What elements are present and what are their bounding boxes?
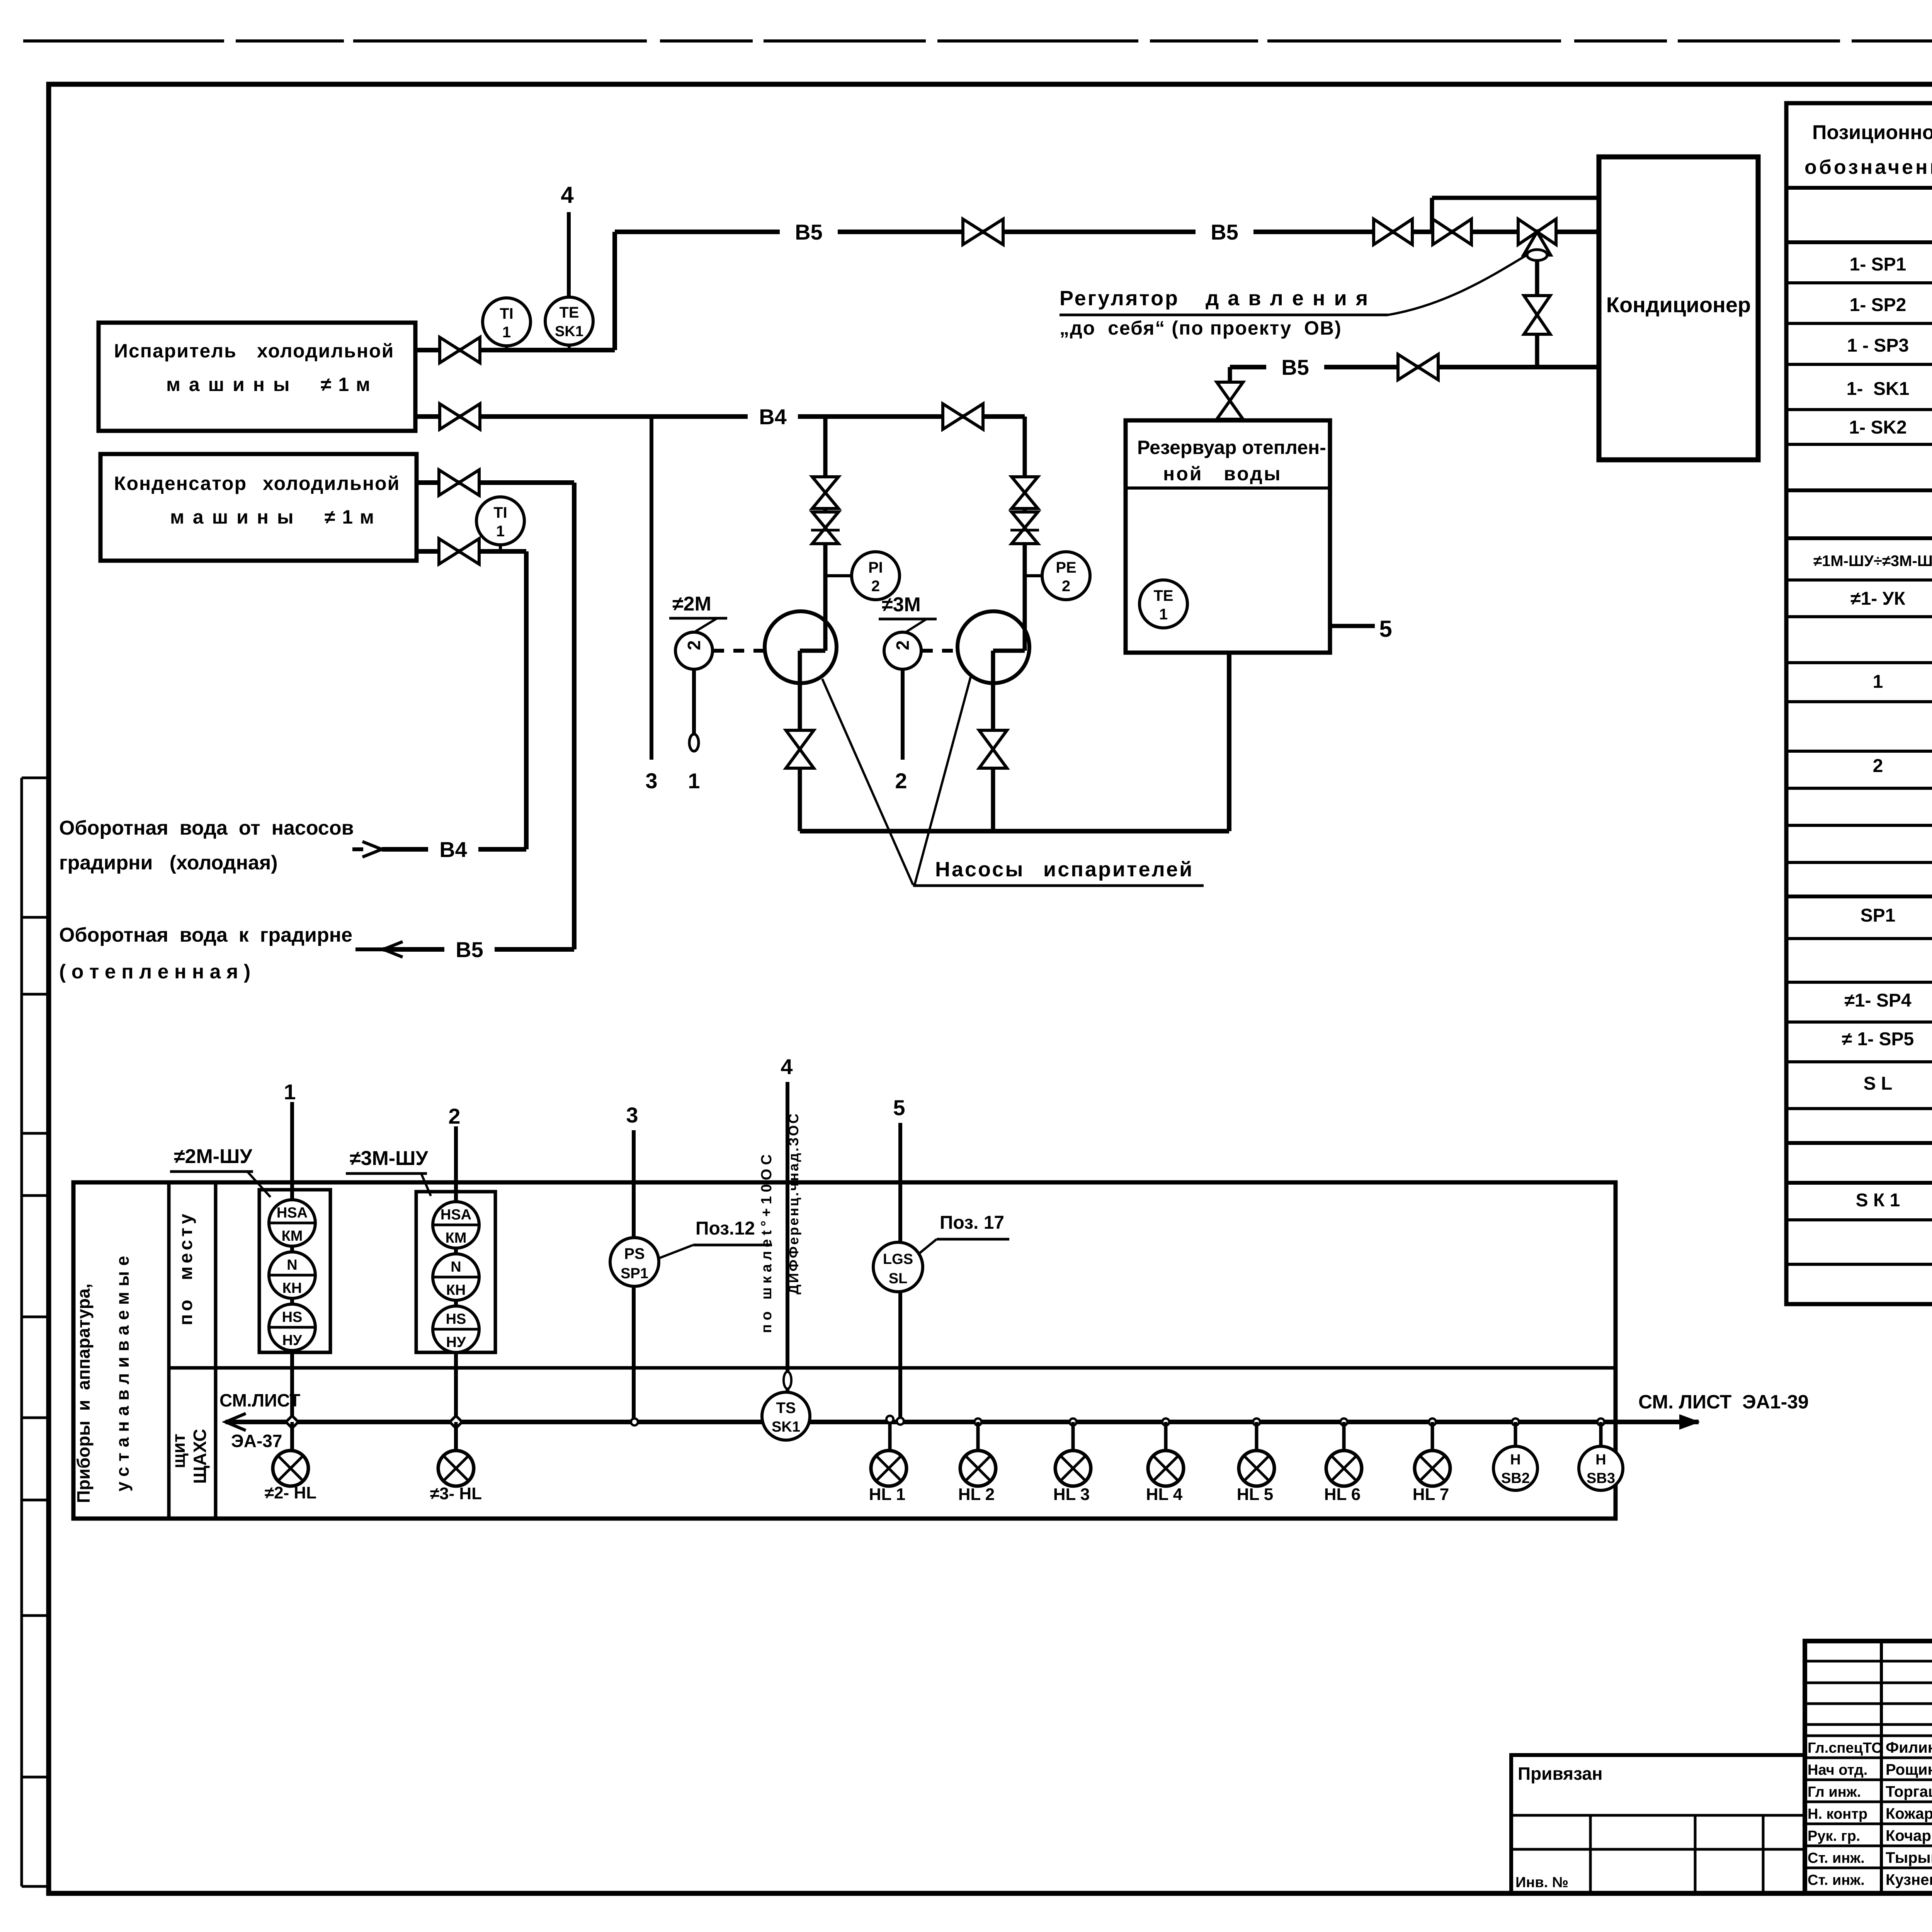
title block outer	[1805, 1641, 1932, 1893]
arrow to sheet ЭА1-39	[1679, 1414, 1700, 1430]
instrument PE 2	[1042, 552, 1090, 600]
panel divider 1	[167, 1182, 171, 1519]
svg-text:Н: Н	[1510, 1452, 1520, 1468]
wire: B5 warmed water line tank-conditioner	[1230, 365, 1599, 369]
wire: line 5 to LGS SL	[898, 1123, 902, 1422]
junction on bus (HL 6)	[1340, 1418, 1347, 1425]
svg-text:Оборотная вода к градирне: Оборотная вода к градирне	[59, 924, 352, 946]
svg-text:Позиционное: Позиционное	[1812, 121, 1932, 144]
svg-text:м а ш и н ы: м а ш и н ы	[166, 374, 291, 395]
svg-text:SK1: SK1	[555, 323, 583, 340]
svg-text:Насосы: Насосы	[935, 858, 1024, 881]
svg-text:испарителей: испарителей	[1043, 858, 1194, 881]
valve 1 of pair on B5 supply	[1374, 219, 1393, 245]
svg-text:Регулятор: Регулятор	[1060, 287, 1179, 310]
wire: pump2 internal jog	[993, 649, 1025, 653]
svg-text:НУ: НУ	[282, 1332, 302, 1349]
valve on B4 line	[943, 404, 963, 429]
instrument LGS SL	[873, 1242, 923, 1292]
svg-text:В5: В5	[456, 937, 483, 962]
valve on evaporator bottom line	[440, 404, 460, 429]
svg-text:HSA: HSA	[440, 1207, 471, 1223]
wire: pump 2 suction riser	[1023, 417, 1027, 651]
svg-text:холодильной: холодильной	[257, 340, 394, 362]
local stack 1 frame	[259, 1190, 330, 1352]
junction on bus (LGS)	[897, 1418, 904, 1425]
conditioner box: Кондиционер	[1599, 157, 1758, 460]
svg-text:Ст. инж.: Ст. инж.	[1808, 1872, 1865, 1888]
instrument TS SK1 on bus	[762, 1392, 810, 1440]
svg-text:≠2М: ≠2М	[672, 593, 711, 615]
svg-text:≠1- УК: ≠1- УК	[1850, 588, 1905, 609]
svg-text:по шкалеt°+10ОС: по шкалеt°+10ОС	[759, 1150, 775, 1333]
junction on bus (HL1)	[886, 1416, 893, 1423]
junction on bus (line1)	[286, 1416, 298, 1428]
svg-text:4: 4	[561, 182, 574, 208]
svg-text:HS: HS	[282, 1309, 303, 1325]
arrow to sheet ЭА-37	[226, 1413, 246, 1430]
svg-text:Поз. 17: Поз. 17	[940, 1213, 1004, 1233]
svg-text:≠2М-ШУ: ≠2М-ШУ	[174, 1145, 252, 1168]
svg-text:Рощин: Рощин	[1886, 1761, 1932, 1778]
valve on B5 supply	[963, 219, 983, 245]
svg-text:Оборотная вода от насосов: Оборотная вода от насосов	[59, 817, 354, 839]
svg-text:Конденсатор: Конденсатор	[114, 473, 247, 494]
valve on regulator drop	[1524, 296, 1550, 315]
bulb above TS SK1	[784, 1372, 791, 1389]
junction on bus (PS)	[631, 1418, 638, 1425]
gauge N2M circle	[675, 632, 713, 669]
svg-text:N: N	[287, 1257, 297, 1273]
svg-text:PE: PE	[1056, 559, 1076, 576]
svg-text:2: 2	[448, 1104, 460, 1128]
lamp HL 1	[871, 1451, 906, 1486]
svg-text:HL 7: HL 7	[1413, 1485, 1449, 1504]
condenser box: Конденсатор холодильной машины N1M	[100, 454, 417, 561]
instrument TE SK1	[545, 297, 593, 345]
svg-text:ной воды: ной воды	[1163, 463, 1282, 485]
panel table outer	[73, 1182, 1616, 1519]
wire: HL 6 stem	[1342, 1422, 1346, 1451]
svg-text:1: 1	[688, 769, 700, 793]
wire: HL 7 stem	[1431, 1422, 1434, 1451]
junction on bus (HL 2)	[975, 1418, 981, 1425]
svg-text:1: 1	[1159, 606, 1168, 623]
attachment box (Привязан)	[1511, 1755, 1805, 1893]
junction on bus (SB3)	[1597, 1418, 1604, 1425]
instrument N/КН (stack2)	[433, 1254, 479, 1300]
svg-text:4: 4	[781, 1054, 793, 1079]
svg-text:SP1: SP1	[1861, 905, 1896, 926]
svg-text:холодильной: холодильной	[263, 473, 400, 494]
wire: line 2 to local stack	[454, 1126, 458, 1451]
svg-text:КН: КН	[282, 1280, 302, 1296]
svg-text:Ст. инж.: Ст. инж.	[1808, 1850, 1865, 1866]
svg-text:градирни (холодная): градирни (холодная)	[59, 852, 278, 874]
instrument TI 1 (condenser)	[476, 497, 524, 545]
wire: line 4 riser	[567, 212, 571, 297]
svg-text:ЭА-37: ЭА-37	[231, 1431, 282, 1451]
svg-text:Торгашов: Торгашов	[1886, 1783, 1932, 1800]
wire: line 1 to local stack	[290, 1102, 294, 1451]
svg-text:устанавливаемые: устанавливаемые	[112, 1250, 133, 1492]
wire: bypass riser	[1430, 198, 1434, 232]
svg-text:HL 2: HL 2	[958, 1485, 995, 1504]
wire: tank outlet 5	[1330, 624, 1375, 628]
wire: line 1 impulse	[692, 669, 696, 733]
wire: panel bus ЩАХС	[226, 1420, 1699, 1424]
svg-text:≠3М: ≠3М	[882, 594, 921, 616]
valve on condenser bottom line	[439, 539, 459, 564]
title block small rows (upper empty)	[1805, 1660, 1932, 1663]
svg-text:1: 1	[496, 523, 505, 540]
svg-text:≠ 1 м: ≠ 1 м	[325, 506, 375, 528]
valve on pump2 riser	[1012, 477, 1038, 493]
wire: riser condenser-B5 return	[572, 483, 577, 949]
check valve on pump2 riser	[1012, 512, 1038, 528]
svg-text:HS: HS	[446, 1311, 466, 1327]
svg-text:HL 4: HL 4	[1146, 1485, 1183, 1504]
valve above tank	[1217, 382, 1243, 401]
wire: evaporator top outlet	[415, 348, 615, 352]
svg-text:1: 1	[284, 1080, 296, 1104]
valve on pump1 riser	[812, 477, 838, 493]
svg-text:TE: TE	[559, 304, 579, 321]
wire: line 3 drop	[650, 417, 653, 760]
wire: PE tap	[1025, 574, 1043, 577]
svg-text:3: 3	[626, 1103, 638, 1127]
svg-text:В5: В5	[795, 220, 823, 244]
svg-text:Кожаринова: Кожаринова	[1886, 1805, 1932, 1822]
instrument HS/НУ (stack1)	[269, 1304, 315, 1350]
wire: pump1 discharge	[798, 651, 802, 831]
svg-text:SP1: SP1	[621, 1265, 648, 1282]
svg-text:TE: TE	[1153, 587, 1173, 604]
wire: SB3 stem	[1599, 1422, 1603, 1447]
instrument TE 1 (tank)	[1139, 580, 1187, 628]
wire: TE stem	[568, 345, 571, 350]
wire: tank top riser	[1228, 367, 1232, 382]
svg-text:Н: Н	[1595, 1452, 1606, 1468]
junction on bus (line2)	[450, 1416, 462, 1428]
svg-text:S К 1: S К 1	[1856, 1190, 1900, 1211]
wire: pump1 internal jog	[800, 649, 825, 653]
title block column	[1880, 1641, 1883, 1893]
wire: HL 4 stem	[1164, 1422, 1168, 1451]
svg-text:Рук. гр.: Рук. гр.	[1808, 1828, 1860, 1844]
svg-text:Нач отд.: Нач отд.	[1808, 1762, 1867, 1778]
panel row divider	[169, 1366, 1616, 1370]
svg-text:2: 2	[1873, 756, 1883, 776]
svg-text:HL 3: HL 3	[1053, 1485, 1090, 1504]
svg-text:1- SP2: 1- SP2	[1850, 295, 1906, 315]
lamp N3-HL	[438, 1451, 474, 1486]
svg-text:Кузнецова: Кузнецова	[1886, 1871, 1932, 1888]
lamp HL 7	[1415, 1451, 1450, 1486]
panel divider 2	[214, 1182, 218, 1519]
svg-text:КМ: КМ	[446, 1230, 467, 1246]
svg-text:Гл инж.: Гл инж.	[1808, 1784, 1861, 1800]
valve on condenser top line	[439, 470, 459, 495]
svg-text:LGS: LGS	[883, 1251, 913, 1267]
valve 2 of pair on B5 supply	[1433, 219, 1452, 245]
svg-text:В5: В5	[1211, 220, 1238, 244]
arrow out of B5 return	[383, 942, 403, 957]
svg-text:Резервуар отеплен-: Резервуар отеплен-	[1137, 437, 1326, 458]
svg-text:( о т е п л е н н а я ): ( о т е п л е н н а я )	[59, 961, 250, 983]
svg-text:В4: В4	[439, 837, 467, 862]
capillary bulb on line 1	[689, 734, 699, 751]
svg-text:≠ 1 м: ≠ 1 м	[321, 374, 371, 395]
wire: TI stem	[505, 346, 508, 350]
table row lines	[1786, 186, 1932, 190]
wire: dashed link N3M-pump2	[922, 649, 957, 653]
wire: riser to B5 supply	[612, 232, 617, 350]
svg-text:Кондиционер: Кондиционер	[1606, 293, 1751, 317]
svg-text:1- SK2: 1- SK2	[1849, 417, 1906, 438]
svg-text:HL 5: HL 5	[1237, 1485, 1274, 1504]
warmed water tank: Резервуар отепленной воды	[1126, 420, 1330, 653]
instrument PI 2	[852, 552, 900, 600]
svg-text:щит: щит	[168, 1434, 189, 1468]
wire: N3-HL stem	[454, 1422, 458, 1451]
svg-text:СМ.ЛИСТ: СМ.ЛИСТ	[219, 1390, 300, 1410]
svg-text:SB3: SB3	[1587, 1470, 1615, 1486]
specification table outer	[1786, 103, 1932, 1304]
button H SB3	[1579, 1446, 1623, 1490]
valve on evaporator top outlet	[440, 337, 460, 363]
button H SB2	[1493, 1446, 1537, 1490]
svg-text:ЩАХС: ЩАХС	[190, 1429, 210, 1484]
svg-text:Испаритель: Испаритель	[114, 340, 237, 362]
svg-text:TI: TI	[500, 305, 514, 322]
svg-text:PI: PI	[868, 559, 883, 576]
wire: SB2 stem	[1514, 1422, 1517, 1447]
svg-text:PS: PS	[624, 1245, 645, 1262]
svg-text:НУ: НУ	[446, 1334, 466, 1350]
svg-text:HSA: HSA	[277, 1205, 308, 1221]
instrument HSA/КМ (stack1)	[269, 1200, 315, 1246]
wire: B4 return line	[382, 847, 526, 852]
evaporator box: Испаритель холодильной машины N1M	[99, 323, 415, 431]
pump N3M (Насос испарителя 2)	[957, 611, 1029, 683]
valve on pump2 discharge	[979, 730, 1007, 749]
wire: pump2 discharge	[991, 651, 995, 831]
svg-text:м а ш и н ы: м а ш и н ы	[170, 506, 295, 528]
svg-text:TS: TS	[776, 1400, 796, 1417]
lamp N2-HL	[273, 1451, 308, 1486]
wire: HL1 stem	[888, 1422, 892, 1451]
lamp HL 4	[1148, 1451, 1184, 1486]
svg-text:В5: В5	[1281, 355, 1309, 379]
wire: pump suction manifold	[800, 829, 1229, 833]
svg-text:СМ. ЛИСТ ЭА1-39: СМ. ЛИСТ ЭА1-39	[1638, 1391, 1809, 1413]
svg-text:≠1М-ШУ÷≠3М-ШУ: ≠1М-ШУ÷≠3М-ШУ	[1813, 553, 1932, 570]
junction on bus (HL 7)	[1429, 1418, 1436, 1425]
svg-text:5: 5	[1379, 616, 1392, 642]
wire: line 2 impulse	[901, 669, 905, 760]
svg-text:≠1- SP4: ≠1- SP4	[1844, 990, 1911, 1011]
wire: PI tap	[825, 574, 852, 577]
svg-text:≠2- НL: ≠2- НL	[265, 1483, 316, 1502]
valve on pump1 discharge	[786, 730, 814, 749]
svg-text:2: 2	[893, 640, 913, 650]
svg-text:SB2: SB2	[1501, 1470, 1530, 1486]
svg-text:N: N	[451, 1259, 461, 1275]
wire: dashed link N2M-pump1	[713, 649, 764, 653]
wire: condenser top line	[417, 480, 574, 485]
svg-text:1: 1	[1873, 672, 1883, 692]
instrument TI 1 (evaporator)	[483, 298, 531, 346]
wire: tank bottom to pump manifold	[1227, 653, 1231, 831]
valve on lower B5 line	[1398, 354, 1418, 380]
wire: B5 chilled water supply	[615, 230, 1599, 234]
wire: TI stem	[499, 545, 502, 551]
junction on bus (SB2)	[1512, 1418, 1519, 1425]
svg-text:S L: S L	[1864, 1073, 1893, 1094]
svg-text:1 - SP3: 1 - SP3	[1847, 335, 1909, 356]
svg-text:≠3М-ШУ: ≠3М-ШУ	[350, 1147, 428, 1170]
svg-text:1- SK1: 1- SK1	[1847, 379, 1910, 399]
svg-text:Н. контр: Н. контр	[1808, 1806, 1867, 1822]
svg-text:≠3- НL: ≠3- НL	[430, 1484, 482, 1503]
lamp HL 5	[1239, 1451, 1274, 1486]
local stack 2 frame	[416, 1192, 495, 1352]
svg-text:2: 2	[871, 578, 880, 595]
lamp HL 3	[1055, 1451, 1091, 1486]
svg-text:В4: В4	[759, 405, 787, 429]
svg-text:Привязан: Привязан	[1518, 1764, 1603, 1784]
svg-text:д а в л е н и я: д а в л е н и я	[1206, 287, 1369, 310]
page top dashed edge line	[23, 39, 1932, 43]
svg-text:SK1: SK1	[772, 1419, 800, 1435]
wire: line 3 to PS SP1	[632, 1130, 636, 1422]
junction on bus (HL 3)	[1070, 1418, 1077, 1425]
svg-text:Филин: Филин	[1886, 1739, 1932, 1756]
svg-text:2: 2	[684, 640, 704, 650]
svg-text:2: 2	[1062, 578, 1070, 595]
svg-text:Тырышкин: Тырышкин	[1886, 1849, 1932, 1866]
svg-text:Поз.12: Поз.12	[696, 1218, 755, 1239]
wire: regulator drop to B5 return	[1535, 260, 1539, 367]
wire: riser condenser-B4 return	[524, 551, 529, 849]
junction on bus (HL 5)	[1253, 1418, 1260, 1425]
svg-text:обозначение: обозначение	[1804, 156, 1932, 179]
svg-text:по месту: по месту	[176, 1211, 196, 1325]
svg-text:TI: TI	[493, 504, 507, 521]
wire: HL 2 stem	[976, 1422, 980, 1451]
arrow into B4 return	[362, 842, 382, 857]
wire: B4 chilled water return	[415, 414, 1025, 419]
svg-text:КН: КН	[446, 1282, 466, 1298]
wire: bypass line to conditioner	[1432, 196, 1599, 200]
wire: HL 3 stem	[1071, 1422, 1075, 1451]
instrument N/КН (stack1)	[269, 1252, 315, 1298]
wire: condenser bottom line	[417, 549, 526, 554]
instrument PS SP1	[610, 1238, 659, 1286]
svg-text:Инв. №: Инв. №	[1515, 1874, 1568, 1891]
svg-text:1- SP1: 1- SP1	[1850, 254, 1906, 275]
wire: pump 1 suction riser	[823, 417, 828, 651]
lamp HL 2	[960, 1451, 996, 1486]
svg-text:≠ 1- SP5: ≠ 1- SP5	[1842, 1029, 1914, 1049]
instrument HS/НУ (stack2)	[433, 1306, 479, 1352]
gauge N3M circle	[884, 632, 921, 669]
svg-text:Гл.спецТО: Гл.спецТО	[1808, 1740, 1883, 1756]
svg-text:1: 1	[502, 324, 511, 341]
svg-text:Кочарннова: Кочарннова	[1886, 1827, 1932, 1844]
left binding strip	[20, 778, 23, 1886]
svg-text:5: 5	[893, 1095, 905, 1120]
svg-text:„до себя“ (по проекту ОВ): „до себя“ (по проекту ОВ)	[1060, 317, 1342, 339]
svg-text:КМ: КМ	[282, 1228, 303, 1244]
svg-text:HL 1: HL 1	[869, 1485, 906, 1504]
wire: N2-HL stem	[291, 1422, 294, 1451]
check valve on pump1 riser	[812, 512, 838, 528]
svg-text:2: 2	[895, 769, 907, 793]
junction on bus (HL 4)	[1162, 1418, 1169, 1425]
instrument HSA/КМ (stack2)	[433, 1202, 479, 1248]
pressure regulator valve (3-way) on B5 supply	[1518, 219, 1537, 245]
wire: B5 return line	[383, 947, 574, 952]
svg-text:ДИФФеренц.чнад.ЗОС: ДИФФеренц.чнад.ЗОС	[786, 1112, 801, 1294]
pump N2M (Насос испарителя 1)	[765, 611, 837, 683]
svg-text:SL: SL	[889, 1270, 908, 1287]
lamp HL 6	[1326, 1451, 1362, 1486]
svg-text:HL 6: HL 6	[1324, 1485, 1361, 1504]
wire: line 4 to TS SK1	[786, 1082, 789, 1393]
wire: HL 5 stem	[1255, 1422, 1259, 1451]
svg-text:Приборы и аппаратура,: Приборы и аппаратура,	[73, 1284, 94, 1503]
svg-text:3: 3	[645, 769, 657, 793]
